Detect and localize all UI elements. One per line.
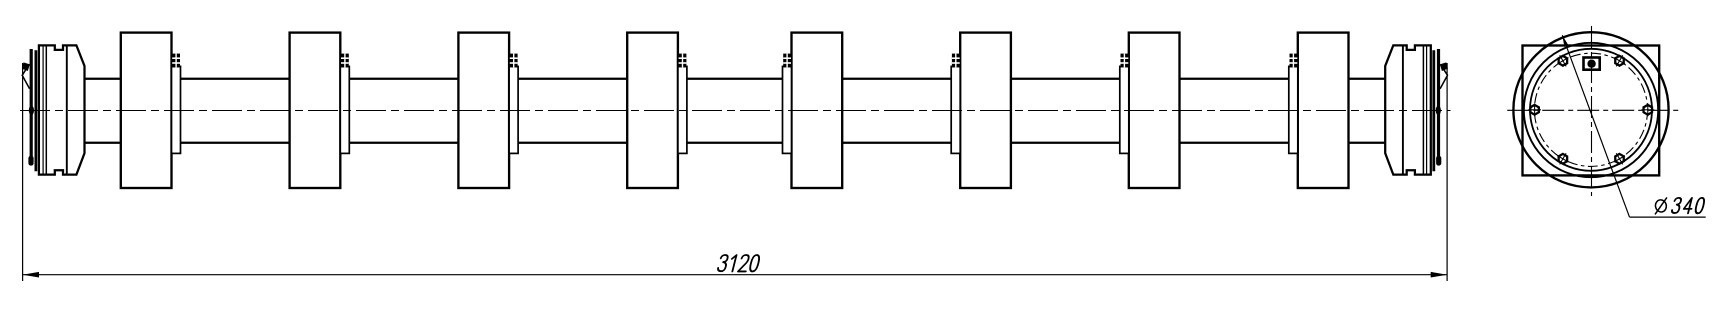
clip of D5 [783,54,791,68]
cap face bar [30,49,33,165]
pin diagonal [1440,64,1447,89]
clip of D8 [1290,54,1298,68]
shaft bottom line [85,142,1386,144]
bolt 300deg [1614,153,1625,164]
pin diagonal [22,64,29,89]
collar of D8 [1289,66,1298,153]
cap face center blob [1436,106,1441,116]
side view horizontal centerline [1507,109,1678,111]
extension line [22,63,24,281]
bolt 180deg [1528,103,1541,116]
clip of D7 [1121,54,1129,68]
clip of D2 [341,54,349,68]
dia 340 text [1671,198,1682,213]
dimension arrow left [23,272,39,278]
disc D7 [1129,33,1180,188]
dia symbol [1654,197,1667,214]
collar of D1 [172,66,181,153]
side view rim circle [1524,43,1658,177]
disc D1 [121,33,172,188]
disc D8 [1298,33,1349,188]
bolt 0deg [1641,103,1654,116]
collar of D6 [951,66,960,153]
cap body outline [39,45,85,174]
disc D3 [458,33,509,188]
shaft top line [85,78,1386,80]
leader line for dia 340 [1562,35,1629,217]
cap face center blob [29,106,34,116]
cap light line a [1426,45,1428,174]
collar of D2 [340,66,349,153]
collar of D4 [678,66,687,153]
extension line [1446,63,1448,281]
left end cap [22,45,85,281]
dimension text 3120 [717,255,728,271]
dimension line 3120 [23,274,1448,276]
bolt 120deg [1557,55,1568,66]
leader arrowhead [1562,35,1568,47]
cap inner ring line [1402,45,1404,174]
bolt 240deg [1557,153,1568,164]
disc D6 [960,33,1011,188]
cap light line b [45,45,47,174]
bolt 60deg [1614,55,1625,66]
disc D4 [627,33,678,188]
clip of D1 [172,54,180,68]
cap face bar [1437,49,1440,165]
pin top head [22,62,30,71]
side view square plate [1523,46,1660,176]
leader horizontal [1630,216,1706,218]
cap bar 2 [1432,50,1435,171]
clip of D3 [510,54,518,68]
cap light line b [1422,45,1424,174]
side view inner circle [1530,49,1652,171]
collar of D5 [783,66,792,153]
pin bottom head [1436,156,1441,166]
cap light line a [42,45,44,174]
cap bar 2 [35,50,38,171]
clip of D4 [679,54,687,68]
bolt circle (dash-dot) [1534,53,1647,166]
pin bottom head [28,156,33,166]
cap body outline [1385,45,1431,174]
side view outer disc circle [1513,32,1668,187]
collar of D7 [1120,66,1129,153]
main centerline [20,110,1451,112]
disc D2 [290,33,341,188]
grease fitting [1584,58,1600,70]
side view vertical centerline [1591,26,1593,196]
right end cap (mirror) [1385,45,1448,281]
disc D5 [792,33,843,188]
cap inner ring line [66,45,68,174]
dimension arrow right [1431,272,1447,278]
clip of D6 [952,54,960,68]
collar of D3 [509,66,518,153]
pin top head [1440,62,1448,71]
